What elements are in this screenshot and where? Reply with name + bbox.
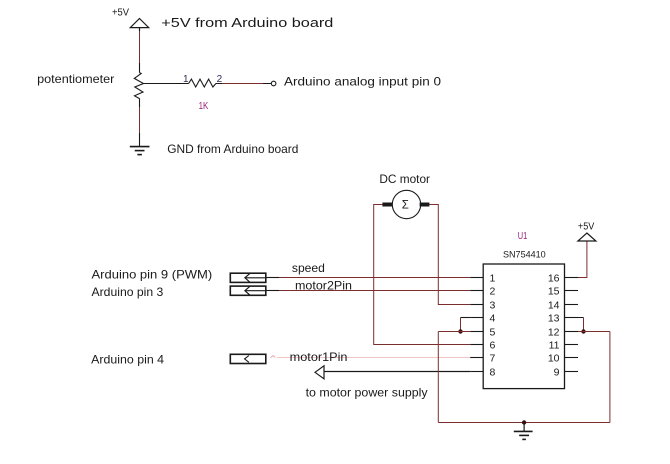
wire resistor to terminal: [216, 83, 271, 85]
U1 pin 12 stub: [565, 331, 579, 333]
junction dot ground: [522, 420, 526, 424]
svg-text:potentiometer: potentiometer: [37, 72, 114, 86]
svg-text:3: 3: [490, 300, 496, 312]
svg-text:DC motor: DC motor: [379, 172, 430, 186]
svg-text:1: 1: [183, 74, 189, 85]
svg-text:10: 10: [548, 353, 560, 365]
svg-text:9: 9: [554, 367, 560, 379]
svg-text:to motor power supply: to motor power supply: [306, 386, 428, 400]
IC U1 SN754410 body: [483, 264, 564, 389]
U1 pin 7 stub: [470, 357, 483, 359]
net: speed wire to pin 1: [279, 277, 470, 279]
pin stub JP1: [266, 277, 280, 279]
connector JP2 motor2Pin: [230, 286, 265, 295]
wire motor right terminal: [429, 205, 470, 305]
svg-text:14: 14: [548, 300, 560, 312]
svg-text:speed: speed: [292, 261, 325, 275]
ground symbol (left): [130, 147, 150, 155]
svg-text:Arduino pin 9 (PWM): Arduino pin 9 (PWM): [92, 267, 213, 281]
U1 pin 4 stub: [470, 317, 483, 319]
svg-text:+5V: +5V: [578, 222, 595, 233]
supply +5V symbol (IC): [578, 233, 596, 241]
svg-text:2: 2: [490, 286, 496, 298]
net: motor2Pin wire to pin 2: [279, 290, 470, 292]
svg-text:11: 11: [549, 340, 560, 352]
U1 pin 9 stub: [565, 371, 579, 373]
U1 pin 11 stub: [565, 344, 579, 346]
junction dot right: [581, 329, 585, 333]
svg-text:4: 4: [490, 313, 496, 325]
wire left vertical to ground run: [437, 332, 439, 423]
wire potentiometer to GND: [139, 107, 141, 133]
ground symbol (bottom): [514, 423, 533, 440]
net: pin5 to left vertical: [438, 331, 470, 333]
ground run wire: [438, 422, 610, 424]
pink tick near JP3: [271, 356, 276, 358]
wire motor left terminal: [374, 205, 471, 345]
svg-text:+5V from Arduino board: +5V from Arduino board: [161, 16, 333, 30]
connector JP1 speed: [230, 273, 265, 282]
U1 pin 10 stub: [565, 357, 579, 359]
off-page arrow: to motor power supply: [315, 366, 470, 379]
svg-text:Arduino analog input pin 0: Arduino analog input pin 0: [284, 74, 441, 88]
junction dot left: [458, 329, 462, 333]
svg-text:Arduino pin 3: Arduino pin 3: [92, 285, 164, 299]
pin stub JP2: [266, 290, 280, 292]
U1 pin 3 stub: [470, 304, 483, 306]
net: pin12 to right vertical: [578, 331, 610, 333]
svg-text:6: 6: [490, 340, 496, 352]
svg-text:motor2Pin: motor2Pin: [295, 279, 352, 293]
wire right vertical to ground run: [609, 332, 611, 423]
svg-text:5: 5: [490, 327, 496, 339]
svg-text:GND from Arduino board: GND from Arduino board: [167, 142, 298, 156]
svg-text:SN754410: SN754410: [503, 249, 546, 259]
U1 pin 15 stub: [565, 290, 579, 292]
net: pin13 down to pin12 net: [565, 317, 584, 319]
open terminal circle: [271, 81, 276, 86]
svg-text:1: 1: [490, 273, 496, 285]
svg-text:16: 16: [548, 273, 560, 285]
svg-text:12: 12: [548, 327, 560, 339]
svg-text:1K: 1K: [199, 101, 209, 112]
wire +5V to potentiometer: [139, 31, 141, 63]
connector JP3 motor1Pin: [230, 354, 265, 363]
U1 pin 6 stub: [470, 344, 483, 346]
U1 pin 2 stub: [470, 290, 483, 292]
net: motor1Pin wire to pin 7 (light): [277, 357, 470, 359]
svg-text:13: 13: [548, 313, 560, 325]
net: pin4 down to pin5 net: [461, 317, 471, 319]
DC motor M1: [382, 190, 429, 218]
svg-text:Arduino pin 4: Arduino pin 4: [91, 353, 164, 367]
svg-text:motor1Pin: motor1Pin: [290, 350, 348, 364]
supply +5V symbol P1 (top-left): [130, 19, 148, 32]
net: pin16 to +5V: [578, 241, 587, 278]
U1 pin 13 stub: [565, 317, 579, 319]
U1 pin 14 stub: [565, 304, 579, 306]
U1 pin 1 stub: [470, 277, 483, 279]
svg-text:+5V: +5V: [112, 8, 129, 19]
wiper wire to resistor: [144, 83, 189, 85]
svg-text:U1: U1: [518, 231, 528, 242]
svg-text:8: 8: [490, 367, 496, 379]
potentiometer R2: [134, 63, 143, 107]
U1 pin 16 stub: [565, 277, 579, 279]
svg-text:7: 7: [490, 353, 496, 365]
svg-text:15: 15: [548, 286, 560, 298]
U1 pin 5 stub: [470, 331, 483, 333]
resistor R1 1K: [189, 79, 216, 87]
U1 pin 8 stub: [470, 371, 483, 373]
svg-text:Σ: Σ: [402, 200, 409, 212]
